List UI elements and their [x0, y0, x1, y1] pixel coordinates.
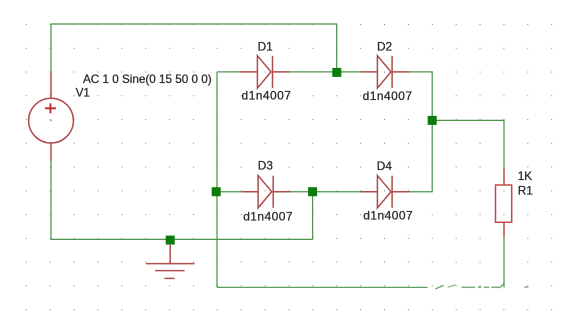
svg-text:d1n4007: d1n4007	[242, 89, 292, 103]
node B junction	[428, 116, 437, 125]
wire V1 top to node A (top rail)	[51, 24, 337, 72]
svg-text:D3: D3	[258, 159, 274, 173]
svg-text:d1n4007: d1n4007	[243, 209, 293, 223]
wire node B to R1 top	[436, 120, 504, 169]
svg-text:AC 1 0 Sine(0 15 50 0 0): AC 1 0 Sine(0 15 50 0 0)	[83, 73, 212, 86]
svg-text:D1: D1	[258, 39, 273, 53]
wire bottom return (partially faded)	[217, 286, 428, 288]
diode D2	[361, 56, 410, 88]
wire D1 anode stub	[217, 71, 240, 73]
wire node C to D4 anode	[313, 191, 361, 193]
svg-text:1K: 1K	[518, 169, 533, 183]
svg-text:D4: D4	[377, 159, 393, 173]
wire node C down to bottom rail	[312, 196, 314, 239]
wire R1 bottom vertical	[503, 236, 505, 287]
wire V1 bottom rail	[51, 161, 313, 240]
svg-text:D2: D2	[377, 39, 392, 53]
wire node D to D3 anode	[217, 191, 242, 193]
node D junction	[212, 187, 221, 196]
wire faded tick 2	[448, 285, 457, 287]
diode D1	[240, 56, 290, 88]
wire node B to D4 cathode	[410, 125, 433, 192]
diode D3	[242, 176, 290, 208]
wire D3 cathode to node C	[290, 191, 313, 193]
wire D2 cathode to node B	[410, 72, 433, 116]
ground junction	[166, 236, 175, 245]
wire faded tick 1	[435, 285, 443, 289]
svg-text:d1n4007: d1n4007	[363, 209, 413, 223]
node A junction	[332, 68, 341, 77]
svg-text:V1: V1	[76, 86, 90, 99]
wire node A between D1 cathode and D2 anode	[290, 71, 361, 73]
AC source V1	[29, 72, 74, 161]
node C junction	[308, 187, 317, 196]
ground symbol	[146, 244, 195, 279]
diode D4	[361, 176, 410, 208]
V1 center dot	[50, 120, 52, 122]
svg-text:R1: R1	[518, 184, 533, 198]
wire left vertical D1/D3 anode bus	[216, 72, 218, 288]
wire faded dash segments	[462, 284, 529, 289]
svg-text:d1n4007: d1n4007	[363, 89, 413, 103]
resistor R1	[496, 169, 512, 237]
